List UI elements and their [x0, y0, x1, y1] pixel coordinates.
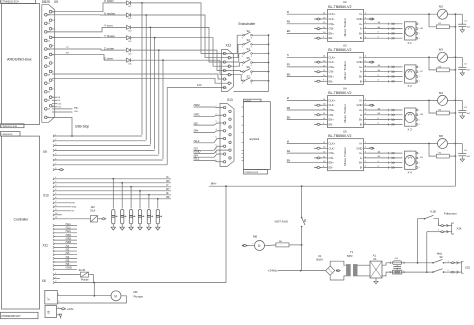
svg-text:B10A: B10A [317, 258, 324, 262]
svg-text:B-: B- [360, 166, 363, 170]
svg-text:4: 4 [378, 166, 379, 168]
svg-text:3: 3 [378, 161, 379, 163]
svg-text:M: M [114, 294, 117, 298]
svg-text:JoyStick: JoyStick [244, 99, 251, 102]
svg-text:/SL2: /SL2 [66, 227, 72, 230]
svg-text:EN+: EN+ [329, 118, 335, 122]
svg-text:Netz: Netz [437, 251, 443, 255]
svg-text:4: 4 [378, 37, 379, 39]
svg-text:X8: X8 [47, 310, 51, 314]
svg-text:U1: U1 [318, 254, 322, 258]
svg-text:EN+: EN+ [329, 75, 335, 79]
svg-text:4: 4 [419, 167, 420, 169]
svg-text:EN-: EN- [329, 79, 334, 83]
svg-text:/SL3: /SL3 [66, 230, 72, 233]
svg-text:MA+: MA+ [211, 181, 217, 185]
svg-text:3: 3 [419, 119, 420, 121]
svg-text:GND: GND [357, 146, 363, 150]
svg-text:4: 4 [419, 81, 420, 83]
svg-text:A+: A+ [359, 22, 363, 26]
svg-text:/S5: /S5 [66, 259, 70, 262]
svg-text:6A: 6A [373, 258, 376, 261]
svg-text:A-: A- [360, 113, 363, 117]
svg-text:X 4: X 4 [408, 170, 413, 174]
svg-text:A+: A+ [359, 65, 363, 69]
svg-text:6: 6 [216, 144, 217, 146]
svg-text:CLK+: CLK+ [329, 12, 336, 16]
svg-text:B-: B- [360, 79, 363, 83]
svg-text:U3: U3 [343, 43, 347, 47]
svg-text:12V: 12V [197, 83, 202, 87]
svg-text:/SR3: /SR3 [66, 241, 72, 244]
svg-text:X14: X14 [457, 227, 462, 231]
svg-text:4: 4 [378, 123, 379, 125]
svg-text:RA: RA [287, 149, 291, 153]
svg-text:GND: GND [357, 60, 363, 64]
svg-text:+24Vdc: +24Vdc [268, 269, 278, 273]
svg-text:/S5: /S5 [194, 121, 199, 125]
svg-text:CLK+: CLK+ [329, 55, 336, 59]
svg-text:B+: B+ [359, 161, 363, 165]
svg-text:CW-: CW- [329, 70, 334, 74]
svg-text:A-: A- [360, 156, 363, 160]
svg-text:CW+: CW+ [329, 151, 335, 155]
svg-text:IY: IY [287, 53, 290, 57]
svg-text:X10: X10 [43, 194, 49, 198]
svg-text:Rel M: Rel M [79, 269, 85, 272]
svg-text:U2: U2 [343, 0, 347, 4]
svg-text:OK+: OK+ [74, 111, 79, 113]
svg-text:B-: B- [360, 36, 363, 40]
svg-text:S2: S2 [247, 29, 251, 33]
svg-text:CLK+: CLK+ [329, 142, 336, 146]
svg-text:EN-: EN- [329, 122, 334, 126]
svg-text:/S2: /S2 [66, 248, 70, 251]
svg-text:4: 4 [378, 80, 379, 82]
svg-text:Pumpe: Pumpe [134, 295, 144, 299]
svg-text:GND: GND [72, 207, 77, 209]
svg-text:BL-TB6560-V2: BL-TB6560-V2 [328, 5, 351, 9]
svg-text:9: 9 [216, 160, 217, 162]
svg-text:Endschalter: Endschalter [239, 22, 257, 26]
svg-text:Controller: Controller [14, 218, 30, 222]
svg-text:USB-Stop: USB-Stop [75, 125, 89, 129]
svg-text:CW-: CW- [329, 27, 334, 31]
svg-text:3: 3 [216, 121, 217, 123]
svg-text:1: 1 [419, 67, 420, 69]
svg-text:50Hz: 50Hz [347, 255, 353, 258]
svg-text:4: 4 [419, 38, 420, 40]
svg-text:EN-: EN- [329, 166, 334, 170]
svg-text:A-: A- [360, 27, 363, 31]
svg-text:V+: V+ [359, 55, 363, 59]
svg-text:1: 1 [438, 223, 439, 225]
svg-text:EN: EN [287, 115, 291, 119]
svg-text:CW+: CW+ [329, 22, 335, 26]
svg-text:BL-TB6560-V2: BL-TB6560-V2 [328, 48, 351, 52]
svg-text:4: 4 [226, 79, 227, 81]
svg-text:CLK+: CLK+ [329, 98, 336, 102]
svg-text:Motor Treiber: Motor Treiber [343, 61, 347, 79]
svg-text:/GND: /GND [66, 267, 72, 270]
svg-text:IX: IX [287, 10, 290, 14]
svg-text:CW-: CW- [329, 156, 334, 160]
svg-text:V+: V+ [359, 142, 363, 146]
svg-text:CW+: CW+ [329, 108, 335, 112]
svg-text:Pumpe: Pumpe [81, 279, 89, 282]
svg-text:JoyStick: JoyStick [249, 137, 260, 141]
svg-text:2: 2 [438, 230, 439, 232]
svg-text:GND: GND [357, 103, 363, 107]
svg-text:5: 5 [216, 137, 217, 139]
svg-text:IZ: IZ [287, 96, 290, 100]
svg-text:3: 3 [419, 162, 420, 164]
svg-text:2: 2 [216, 113, 217, 115]
svg-text:3: 3 [419, 76, 420, 78]
svg-text:S3: S3 [247, 38, 251, 42]
svg-text:A+: A+ [359, 151, 363, 155]
svg-text:1: 1 [448, 261, 449, 263]
svg-text:Motor Treiber: Motor Treiber [343, 104, 347, 122]
svg-text:U5: U5 [343, 130, 347, 134]
svg-text:X9: X9 [43, 150, 47, 154]
svg-text:GND: GND [357, 17, 363, 21]
svg-text:IX: IX [166, 175, 169, 179]
svg-text:Motor Treiber: Motor Treiber [343, 18, 347, 36]
svg-text:IZ: IZ [166, 191, 169, 195]
svg-text:8: 8 [216, 152, 217, 154]
svg-text:M: M [258, 244, 261, 248]
svg-text:A-: A- [360, 70, 363, 74]
svg-text:/S6: /S6 [66, 263, 70, 266]
svg-text:MA+: MA+ [74, 106, 79, 109]
svg-text:/SR2: /SR2 [194, 103, 201, 107]
svg-text:M4: M4 [439, 91, 443, 95]
svg-text:ARDUINO-Box: ARDUINO-Box [7, 58, 32, 62]
svg-text:Fräsmotor: Fräsmotor [444, 211, 457, 215]
svg-text:/SR1: /SR1 [66, 234, 72, 237]
svg-text:B-: B- [360, 122, 363, 126]
svg-text:BL-TB6560-V2: BL-TB6560-V2 [328, 91, 351, 95]
svg-text:EN: EN [287, 29, 291, 33]
svg-text:M3: M3 [439, 48, 443, 52]
svg-text:RY: RY [166, 187, 170, 191]
svg-text:RZ: RZ [166, 195, 170, 199]
svg-text:X 2: X 2 [408, 84, 413, 88]
svg-text:X13: X13 [227, 98, 233, 102]
svg-text:/SL2: /SL2 [194, 139, 200, 143]
svg-text:+24V: +24V [67, 307, 74, 311]
svg-text:/SR2: /SR2 [66, 238, 72, 241]
svg-text:A+: A+ [359, 108, 363, 112]
svg-text:IY: IY [166, 183, 169, 187]
svg-text:/S3: /S3 [66, 252, 70, 255]
svg-text:M1: M1 [134, 290, 138, 294]
svg-text:/SR1: /SR1 [194, 113, 201, 117]
svg-text:X7: X7 [47, 297, 51, 301]
svg-text:K1B: K1B [431, 209, 436, 213]
svg-text:M5: M5 [439, 134, 443, 138]
svg-text:X15: X15 [465, 266, 470, 270]
svg-text:S5: S5 [247, 56, 251, 60]
svg-text:/S4: /S4 [66, 256, 70, 259]
svg-text:K1A: K1A [91, 209, 96, 212]
svg-text:3: 3 [378, 75, 379, 77]
svg-text:X 3: X 3 [408, 127, 413, 131]
svg-text:3: 3 [419, 33, 420, 35]
svg-text:/SL1: /SL1 [66, 223, 72, 226]
svg-text:U4: U4 [343, 86, 347, 90]
svg-text:CTM66102C.SCH: CTM66102C.SCH [1, 126, 18, 128]
svg-text:S4: S4 [247, 47, 251, 51]
svg-text:4: 4 [419, 124, 420, 126]
svg-text:M2: M2 [439, 5, 443, 9]
svg-text:CTM66102.SCH: CTM66102.SCH [1, 1, 19, 4]
svg-text:CTM66102B.SCH: CTM66102B.SCH [1, 315, 20, 318]
svg-text:V+: V+ [359, 98, 363, 102]
svg-text:/SL1: /SL1 [194, 157, 200, 161]
svg-text:S7: S7 [247, 74, 251, 78]
svg-text:12V: 12V [91, 206, 96, 209]
svg-text:X11: X11 [43, 244, 49, 248]
svg-text:1: 1 [419, 110, 420, 112]
svg-text:CTM90193.SCH: CTM90193.SCH [244, 172, 259, 174]
svg-text:B+: B+ [359, 118, 363, 122]
svg-text:7: 7 [216, 148, 217, 150]
svg-text:RX: RX [287, 20, 291, 24]
svg-text:B+: B+ [359, 31, 363, 35]
svg-text:/SH: /SH [194, 129, 199, 133]
svg-text:3: 3 [378, 118, 379, 120]
svg-text:A1: A1 [373, 254, 377, 258]
svg-text:NOT-AUS: NOT-AUS [275, 220, 288, 224]
svg-text:1: 1 [419, 153, 420, 155]
svg-text:RY: RY [287, 63, 291, 67]
svg-text:EN+: EN+ [329, 31, 335, 35]
svg-text:X6: X6 [42, 279, 46, 283]
svg-text:CW-: CW- [329, 113, 334, 117]
svg-text:9: 9 [231, 83, 232, 85]
svg-text:1: 1 [419, 24, 420, 26]
svg-text:EN: EN [287, 72, 291, 76]
svg-text:RZ: RZ [287, 106, 291, 110]
svg-text:X 1: X 1 [408, 41, 413, 45]
svg-text:M6: M6 [253, 234, 257, 238]
svg-text:Motor Treiber: Motor Treiber [343, 147, 347, 165]
svg-text:/S1: /S1 [66, 245, 70, 248]
svg-text:BL-TB6560-V2: BL-TB6560-V2 [328, 134, 351, 138]
svg-text:V+: V+ [359, 12, 363, 16]
svg-text:2: 2 [448, 270, 449, 272]
svg-text:4: 4 [216, 129, 217, 131]
svg-text:CLK-: CLK- [329, 17, 335, 21]
svg-text:DB25: DB25 [42, 0, 50, 4]
svg-text:CLK-: CLK- [329, 60, 335, 64]
svg-text:EN: EN [72, 203, 75, 205]
svg-text:RX: RX [166, 179, 170, 183]
svg-text:X5: X5 [54, 0, 58, 4]
svg-text:CW+: CW+ [329, 65, 335, 69]
svg-text:EN-: EN- [329, 36, 334, 40]
svg-text:CLK-: CLK- [329, 103, 335, 107]
svg-text:EN+: EN+ [329, 161, 335, 165]
svg-text:5: 5 [226, 87, 227, 89]
svg-text:B+: B+ [359, 75, 363, 79]
svg-text:EN: EN [287, 159, 291, 163]
svg-text:X12: X12 [226, 44, 232, 48]
svg-text:3: 3 [378, 32, 379, 34]
svg-text:S6: S6 [247, 65, 251, 69]
svg-text:IA: IA [287, 139, 290, 143]
svg-text:1: 1 [216, 106, 217, 108]
svg-text:CLK-: CLK- [329, 146, 335, 150]
